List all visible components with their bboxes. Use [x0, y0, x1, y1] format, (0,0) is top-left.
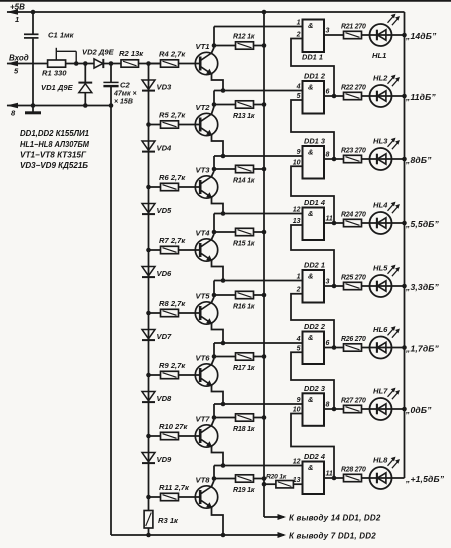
svg-text:R9 2,7к: R9 2,7к [159, 361, 186, 370]
node ladder tap 5 [146, 311, 151, 316]
svg-text:11: 11 [326, 471, 333, 478]
diode VD7 [142, 330, 155, 339]
resistor R25 [344, 282, 362, 289]
svg-text:9: 9 [297, 149, 301, 156]
svg-text:VT1−VT8 КТ315Г: VT1−VT8 КТ315Г [20, 151, 87, 160]
svg-text:DD2 4: DD2 4 [304, 452, 325, 461]
node ground / C1 branch [31, 103, 36, 108]
svg-text:VD6: VD6 [157, 269, 173, 278]
svg-text:6: 6 [326, 340, 330, 347]
node R18 +5V rail [262, 415, 267, 420]
wire HL8 to right rail [392, 477, 405, 479]
wire resistor to HL5 [362, 285, 370, 287]
wire R5 to VT2 base [179, 124, 201, 126]
svg-text:HL2: HL2 [373, 74, 388, 83]
resistor R21 [344, 31, 362, 38]
wire riser VT2 to gate [213, 91, 215, 105]
arrow to pin 7 [278, 532, 287, 538]
wire ground bottom [111, 534, 284, 536]
node ladder top [146, 61, 151, 66]
wire DD2 4 output [324, 477, 344, 479]
svg-text:&: & [308, 333, 313, 342]
wire DD2 2 output [324, 347, 344, 349]
node ladder tap 4 [146, 248, 151, 253]
svg-text:„1,7дБ”: „1,7дБ” [405, 344, 440, 354]
resistor R15 [236, 228, 254, 235]
capacitor C1 [32, 12, 34, 34]
svg-text:R1 330: R1 330 [42, 69, 67, 78]
wire VT7 collector [212, 420, 215, 426]
wire riser VT5 to gate [213, 281, 215, 296]
resistor R8 [161, 309, 179, 316]
node VD1 top [83, 61, 88, 66]
svg-text:VT7: VT7 [196, 415, 211, 424]
svg-text:1: 1 [297, 20, 301, 27]
wire ladder to R9 [149, 374, 161, 376]
svg-text:6: 6 [326, 89, 330, 96]
wire ladder to R11 [149, 496, 161, 498]
svg-text:VT3: VT3 [196, 166, 211, 175]
diode VD9 [142, 453, 155, 462]
wire ground left vertical [110, 106, 112, 536]
wire HL2 to right rail [392, 95, 405, 97]
svg-text:12: 12 [293, 459, 301, 466]
resistor R11 [161, 493, 179, 500]
wire ladder to R4 [149, 63, 161, 65]
wire HL4 to right rail [392, 222, 405, 224]
resistor R20 [276, 481, 294, 488]
wire HL7 to right rail [392, 408, 405, 410]
svg-text:R5 2,7к: R5 2,7к [159, 111, 186, 120]
wire R7 to VT4 base [179, 249, 201, 251]
node R19 +5V rail [262, 476, 267, 481]
node collector VT1 [212, 43, 217, 48]
svg-text:VD4: VD4 [157, 144, 173, 153]
resistor R14 [236, 165, 254, 172]
svg-text:R13 1к: R13 1к [233, 112, 255, 120]
transistor VT2 [195, 113, 217, 135]
node HL3 right rail [402, 157, 407, 162]
svg-text:13: 13 [293, 218, 301, 225]
wire VT5 emitter jog [212, 324, 224, 343]
wire VT1 collector [212, 48, 215, 53]
AND gate DD1 4 [303, 208, 325, 241]
wire HL5 to right rail [392, 285, 405, 287]
wire node to R19 [214, 478, 236, 480]
wire VT7 emitter jog [212, 447, 224, 466]
svg-text:HL8: HL8 [373, 456, 388, 465]
svg-text:VD8: VD8 [157, 394, 173, 403]
diode VD4 [142, 141, 155, 150]
svg-text:R21 270: R21 270 [341, 24, 366, 31]
wire ladder to R7 [149, 249, 161, 251]
wire VT8 emitter to ground [212, 508, 224, 535]
svg-text:R28 270: R28 270 [341, 467, 366, 474]
svg-text:R25 270: R25 270 [341, 275, 366, 282]
wire DD1 4 pin 13 coupling [291, 225, 334, 286]
svg-text:VT5: VT5 [196, 292, 211, 301]
node R15 +5V rail [262, 230, 267, 235]
wire resistor to HL7 [362, 408, 370, 410]
node collector VT3 [212, 167, 217, 172]
transistor VT6 [195, 364, 217, 386]
wire VT5 collector [212, 297, 215, 302]
wire DD2.4 pin 13 to R20 [293, 483, 302, 485]
svg-text:R10 27к: R10 27к [159, 422, 188, 431]
svg-text:2: 2 [296, 287, 301, 294]
svg-text:DD1,DD2 К155ЛИ1: DD1,DD2 К155ЛИ1 [20, 129, 89, 138]
wire HL6 to right rail [392, 347, 405, 349]
wire VT2 emitter jog [212, 135, 224, 156]
wire VT2 collector [212, 107, 215, 114]
diode VD8 [142, 392, 155, 401]
wire DD2 1 pin 2 coupling [291, 294, 334, 348]
svg-text:8: 8 [326, 152, 330, 159]
transistor VT8 [195, 486, 217, 508]
wire DD1 1 pin 2 coupling [291, 39, 334, 97]
svg-text:„3,3дБ”: „3,3дБ” [405, 282, 440, 292]
svg-text:R8 2,7к: R8 2,7к [159, 299, 186, 308]
node HL5 right rail [402, 284, 407, 289]
svg-text:&: & [308, 209, 313, 218]
node HL7 right rail [402, 407, 407, 412]
wire HL3 to right rail [392, 158, 405, 160]
wire R10 to VT7 base [179, 435, 201, 437]
svg-text:DD1 1: DD1 1 [302, 53, 323, 62]
svg-text:3: 3 [326, 28, 330, 35]
LED HL1 [370, 24, 392, 46]
wire R2 to ladder [139, 63, 161, 65]
node collector VT7 [212, 415, 217, 420]
wire node to R17 [214, 356, 236, 358]
node emitter VT7 junction [221, 463, 226, 468]
diode VD1 [84, 64, 86, 83]
node top rail / C1 [31, 10, 36, 15]
AND gate DD2 1 [303, 270, 325, 303]
transistor VT5 [195, 302, 217, 324]
svg-text:VD3: VD3 [157, 83, 173, 92]
node top rail / +5V mid rail [262, 10, 267, 15]
node R20 +5V rail [262, 482, 267, 487]
svg-text:HL5: HL5 [373, 264, 388, 273]
resistor R23 [344, 155, 362, 162]
resistor R27 [344, 405, 362, 412]
AND gate DD2 2 [303, 332, 325, 365]
wire ladder to R6 [149, 186, 161, 188]
LED HL2 [370, 85, 392, 107]
wire riser VT7 to gate [213, 404, 215, 418]
wire riser VT8 to gate [213, 466, 215, 479]
resistor R1 (trimmer) [48, 60, 66, 67]
wire VT8 collector [212, 481, 215, 487]
svg-text:3: 3 [326, 279, 330, 286]
svg-text:VD1 Д9Е: VD1 Д9Е [41, 83, 74, 92]
wire R17 to +5V rail [254, 356, 265, 358]
wire VT3 collector [212, 171, 215, 176]
svg-text:VD9: VD9 [157, 455, 173, 464]
AND gate DD1 1 [303, 20, 325, 53]
resistor R28 [344, 474, 362, 481]
node coupling to gate 4 output [332, 221, 337, 226]
svg-text:1: 1 [297, 274, 301, 281]
wire VT6 collector [212, 359, 215, 365]
svg-text:10: 10 [293, 407, 301, 414]
wire ladder to R10 [149, 435, 161, 437]
diode VD5 [142, 204, 155, 213]
svg-text:HL1: HL1 [372, 51, 386, 60]
resistor R13 [236, 101, 254, 108]
wire node to R13 [214, 104, 236, 106]
LED HL8 [370, 467, 392, 489]
wire DD1 4 output [324, 222, 344, 224]
node ladder tap 7 [146, 434, 151, 439]
node collector VT6 [212, 354, 217, 359]
wire +5V mid rail [263, 12, 265, 517]
svg-text:DD2 2: DD2 2 [304, 322, 326, 331]
wire R18 to +5V rail [254, 417, 265, 419]
svg-text:VD2 Д9Е: VD2 Д9Е [82, 48, 115, 57]
wire node to R15 [214, 231, 236, 233]
svg-text:„5,5дБ”: „5,5дБ” [405, 219, 440, 229]
resistor R24 [344, 219, 362, 226]
diode VD6 [142, 267, 155, 276]
svg-text:&: & [308, 272, 313, 281]
node collector VT5 [212, 293, 217, 298]
wire resistor to HL2 [362, 95, 370, 97]
resistor R17 [236, 353, 254, 360]
transistor VT4 [195, 239, 217, 261]
wire VT4 collector [212, 234, 215, 239]
svg-text:„+1,5дБ”: „+1,5дБ” [405, 474, 445, 484]
svg-text:9: 9 [297, 397, 301, 404]
svg-text:47мк ×: 47мк × [113, 91, 137, 98]
svg-text:1: 1 [15, 15, 19, 24]
top border scan line [0, 0, 451, 2]
svg-text:R12 1к: R12 1к [233, 33, 255, 41]
LED HL6 [370, 337, 392, 359]
svg-text:R19 1к: R19 1к [233, 486, 255, 494]
wire R19 to +5V rail [254, 478, 265, 480]
wire R15 to +5V rail [254, 231, 265, 233]
wire +5V rail to pin14 arrow [264, 516, 284, 518]
node coupling to gate 2 output [332, 94, 337, 99]
svg-text:VT2: VT2 [196, 103, 211, 112]
terminal Вход arrow [7, 63, 48, 65]
node coupling to gate 7 output [332, 407, 337, 412]
wire VT1 emitter jog [212, 74, 224, 90]
wire VT6 emitter jog [212, 386, 224, 404]
node coupling to gate 5 output [332, 284, 337, 289]
svg-text:× 15В: × 15В [114, 99, 133, 106]
node coupling to gate 6 output [332, 345, 337, 350]
wire diode ladder [148, 64, 150, 511]
resistor R3 [144, 511, 153, 529]
wire R11 to VT8 base [179, 496, 201, 498]
svg-text:C1 1мк: C1 1мк [48, 31, 75, 40]
svg-text:R15 1к: R15 1к [233, 240, 255, 248]
node emitter VT3 junction [221, 211, 226, 216]
svg-text:DD2 1: DD2 1 [304, 261, 325, 270]
node ladder tap 3 [146, 185, 151, 190]
wire +5V top rail [33, 11, 405, 13]
svg-text:R22 270: R22 270 [341, 85, 366, 92]
wire node to R12 [214, 45, 236, 47]
svg-text:К выводу 7 DD1, DD2: К выводу 7 DD1, DD2 [289, 532, 376, 541]
svg-text:R14 1к: R14 1к [233, 177, 255, 185]
wire DD2 3 pin 10 coupling [291, 414, 334, 479]
resistor R5 [161, 121, 179, 128]
svg-text:VT1: VT1 [196, 42, 210, 51]
resistor R4 [161, 60, 179, 67]
wire R12 to +5V rail [254, 45, 265, 47]
LED HL5 [370, 275, 392, 297]
wire DD2 3 output [324, 408, 344, 410]
svg-text:VT6: VT6 [196, 354, 211, 363]
resistor R18 [236, 414, 254, 421]
svg-text:C2: C2 [120, 81, 130, 90]
svg-text:2: 2 [296, 32, 301, 39]
node VD1 bottom [83, 103, 88, 108]
resistor R22 [344, 92, 362, 99]
node emitter VT1 junction [221, 88, 226, 93]
wire resistor to HL3 [362, 158, 370, 160]
svg-text:R27 270: R27 270 [341, 398, 366, 405]
svg-text:&: & [308, 21, 313, 30]
node emitter VT4 junction [221, 278, 226, 283]
svg-text:R11 2,7к: R11 2,7к [159, 483, 190, 492]
wire DD1 2 pin 5 coupling [291, 100, 334, 159]
svg-text:10: 10 [293, 159, 301, 166]
node R14 +5V rail [262, 167, 267, 172]
wire resistor to HL8 [362, 477, 370, 479]
svg-text:Вход: Вход [9, 54, 29, 63]
svg-text:R17 1к: R17 1к [233, 364, 255, 372]
resistor R12 [236, 42, 254, 49]
wire R8 to VT5 base [179, 312, 201, 314]
svg-text:HL6: HL6 [373, 325, 388, 334]
svg-text:R16 1к: R16 1к [233, 303, 255, 311]
svg-text:12: 12 [293, 207, 301, 214]
wire HL1 to right rail [392, 34, 405, 36]
node R1 wiper junction [74, 61, 79, 66]
svg-text:HL4: HL4 [373, 201, 388, 210]
wire DD1 3 output [324, 158, 344, 160]
svg-text:&: & [308, 395, 313, 404]
node coupling to gate 8 output [332, 476, 337, 481]
svg-text:R2 13к: R2 13к [119, 49, 144, 58]
resistor R19 [236, 475, 254, 482]
wire R3 to ground [148, 528, 150, 535]
wire DD2 1 output [324, 285, 344, 287]
svg-text:К выводу 14 DD1, DD2: К выводу 14 DD1, DD2 [289, 514, 381, 523]
resistor R2 [121, 60, 139, 67]
terminal 8 arrow (common) [7, 105, 111, 107]
wire R6 to VT3 base [179, 186, 201, 188]
svg-text:+5В: +5В [10, 3, 25, 12]
wire +5V right rail [404, 12, 406, 478]
node ground / C2 [109, 103, 114, 108]
svg-text:HL7: HL7 [373, 387, 388, 396]
node R16 +5V rail [262, 293, 267, 298]
svg-text:&: & [308, 463, 313, 472]
svg-text:5: 5 [297, 93, 301, 100]
svg-text:„0дБ”: „0дБ” [405, 405, 432, 415]
AND gate DD1 2 [303, 81, 325, 114]
transistor VT7 [195, 425, 217, 447]
node ladder tap 2 [146, 122, 151, 127]
node collector VT4 [212, 230, 217, 235]
wire node to R14 [214, 168, 236, 170]
AND gate DD1 3 [303, 146, 325, 179]
node R3 ground [146, 533, 151, 538]
diode VD3 [142, 80, 155, 89]
wire VT4 emitter jog [212, 261, 224, 281]
wire DD1 2 output [324, 95, 344, 97]
wire R20 to +5V rail [264, 483, 276, 485]
svg-text:DD1 4: DD1 4 [304, 198, 325, 207]
wire node to R16 [214, 294, 236, 296]
svg-text:R7 2,7к: R7 2,7к [159, 236, 186, 245]
svg-text:11: 11 [326, 216, 333, 223]
svg-text:4: 4 [296, 84, 301, 91]
wire resistor to HL4 [362, 222, 370, 224]
transistor VT3 [195, 176, 217, 198]
wire ladder to R5 [149, 124, 161, 126]
node emitter VT6 junction [221, 402, 226, 407]
wire ladder to R8 [149, 312, 161, 314]
svg-text:8: 8 [326, 402, 330, 409]
wire DD1 1 output [324, 34, 344, 36]
svg-text:VT8: VT8 [196, 476, 211, 485]
resistor R7 [161, 246, 179, 253]
wire R9 to VT6 base [179, 374, 201, 376]
svg-text:R6 2,7к: R6 2,7к [159, 173, 186, 182]
svg-text:&: & [308, 148, 313, 157]
arrow to pin 14 [278, 514, 287, 520]
resistor R6 [161, 183, 179, 190]
node HL2 right rail [402, 94, 407, 99]
node HL4 right rail [402, 221, 407, 226]
svg-text:VD5: VD5 [157, 206, 173, 215]
wire R14 to +5V rail [254, 168, 265, 170]
node ladder tap 8 [146, 495, 151, 500]
wire R1 to VD2 [66, 63, 94, 65]
node R12 +5V rail [262, 43, 267, 48]
node ladder tap 6 [146, 373, 151, 378]
resistor R9 [161, 371, 179, 378]
svg-text:VD3−VD9 КД521Б: VD3−VD9 КД521Б [20, 161, 88, 170]
svg-text:DD1 3: DD1 3 [304, 137, 326, 146]
svg-text:„11дБ”: „11дБ” [405, 92, 436, 102]
diode VD2 [94, 59, 103, 68]
svg-text:R20 1к: R20 1к [266, 474, 287, 481]
node emitter VT8 ground [221, 533, 226, 538]
AND gate DD2 4 [303, 462, 325, 495]
wire VT3 emitter jog [212, 198, 224, 214]
node collector VT2 [212, 102, 217, 107]
LED HL7 [370, 398, 392, 420]
wire R16 to +5V rail [254, 294, 265, 296]
wire riser VT3 to gate [213, 156, 215, 169]
svg-text:R26 270: R26 270 [341, 336, 366, 343]
svg-text:5: 5 [297, 345, 301, 352]
svg-text:VT4: VT4 [196, 229, 211, 238]
svg-text:HL3: HL3 [373, 137, 388, 146]
node R13 +5V rail [262, 102, 267, 107]
wire DD1 3 pin 10 coupling [291, 166, 334, 223]
AND gate DD2 3 [303, 393, 325, 426]
LED HL4 [370, 212, 392, 234]
